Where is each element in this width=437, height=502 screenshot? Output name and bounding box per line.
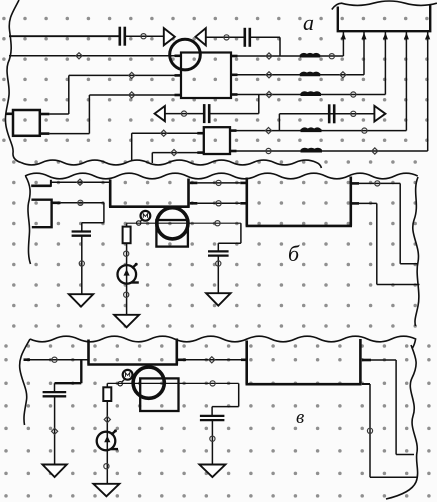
node diamond — [265, 128, 271, 134]
node — [124, 251, 129, 256]
wire w1 to edge — [352, 182, 359, 185]
wire row b-r2 — [190, 202, 198, 205]
node — [181, 111, 186, 116]
wire row b2a — [52, 202, 61, 205]
mounting box V — [140, 378, 178, 411]
transistor circle V — [133, 367, 164, 398]
transistor circle B — [157, 208, 188, 239]
node — [210, 381, 215, 386]
wire — [206, 36, 245, 38]
torn paper edge, section b top — [25, 173, 418, 179]
connector circle — [118, 382, 122, 386]
node — [375, 181, 380, 186]
node — [266, 148, 271, 153]
wire resistor bottom — [106, 401, 108, 484]
torn paper edge, section a bottom — [21, 160, 321, 168]
node diamond — [76, 53, 82, 59]
wire row2 left — [9, 55, 181, 57]
node — [224, 35, 229, 40]
ground — [114, 315, 139, 328]
wire to row4 — [209, 113, 259, 115]
capacitor C5 — [72, 230, 91, 232]
IC block B (central) — [109, 179, 190, 207]
node diamond — [266, 72, 272, 78]
node diamond — [129, 92, 135, 98]
node — [216, 201, 221, 206]
connector circle — [137, 221, 141, 225]
node — [210, 436, 215, 441]
wire w3 to edge — [362, 359, 371, 362]
probe link — [122, 380, 125, 382]
wire row4 right — [231, 94, 385, 96]
wire row2 right — [231, 55, 343, 57]
torn paper edge, section v right — [386, 345, 418, 499]
inductor L3 — [302, 92, 321, 94]
node diamond — [340, 72, 346, 78]
svg-text:б: б — [288, 241, 300, 266]
node diamond — [171, 150, 177, 156]
torn paper edge, section b right — [413, 177, 419, 326]
ground — [42, 465, 66, 478]
wire row v-r1 — [178, 358, 186, 361]
IC block B2 (right) — [246, 177, 352, 226]
IC block V2 (right) — [246, 339, 362, 384]
wire row6 right — [230, 150, 428, 152]
node — [362, 128, 367, 133]
torn paper edge, section a left — [5, 0, 21, 163]
wire row1 left — [9, 35, 119, 37]
wire w2 to edge — [352, 202, 359, 205]
inductor L1 — [301, 54, 319, 56]
wire resistor top — [106, 383, 108, 387]
IC block V (central) — [87, 339, 178, 365]
connector block B1 — [31, 200, 51, 228]
wire resistor bottom — [126, 243, 128, 315]
node — [124, 292, 129, 297]
wire — [81, 236, 83, 294]
amplifier right — [164, 28, 175, 45]
node — [351, 111, 356, 116]
wire cap branch right — [278, 114, 280, 131]
wire to capacitor — [103, 203, 105, 223]
capacitor C3 — [203, 104, 206, 123]
wire row b-r1 — [190, 182, 198, 185]
meter M1 — [141, 211, 151, 221]
ground — [69, 294, 93, 307]
wire row5 right — [230, 130, 406, 132]
wire — [165, 113, 204, 115]
wire row3 left — [69, 74, 181, 76]
wire row b3 (through hole) — [127, 222, 241, 224]
node diamond — [209, 357, 215, 363]
node diamond — [77, 179, 83, 185]
wire — [211, 420, 213, 464]
stub wire with tick — [31, 185, 51, 188]
node — [351, 92, 356, 97]
node — [79, 261, 84, 266]
wire row4 left — [89, 94, 181, 96]
wire to capacitor — [80, 360, 82, 384]
torn paper edge, section v top — [30, 336, 416, 348]
node — [216, 261, 221, 266]
capacitor C6 — [208, 250, 229, 252]
node — [52, 357, 57, 362]
pin stubs, block A — [175, 54, 182, 57]
node — [367, 428, 372, 433]
node — [104, 464, 109, 469]
node — [329, 54, 334, 59]
node — [141, 34, 146, 39]
wire row5 left corner — [132, 132, 204, 134]
node diamond — [104, 416, 110, 422]
svg-text:в: в — [296, 407, 304, 428]
ground — [199, 465, 225, 478]
wire row6 left corner — [152, 152, 204, 154]
generator symbol G1 — [118, 265, 137, 284]
node — [78, 200, 83, 205]
wire row v2 (through hole) — [107, 382, 238, 384]
connector block A3 top right — [337, 5, 432, 32]
torn paper edge, top-right fragment — [332, 1, 437, 10]
capacitor C4 — [328, 104, 331, 123]
wire — [125, 35, 164, 37]
capacitor C1 — [119, 27, 122, 46]
wire — [217, 256, 219, 294]
inductor L5 — [302, 149, 322, 151]
torn paper edge, section b left — [26, 176, 31, 264]
inductor L2 — [301, 73, 319, 75]
node diamond — [129, 72, 135, 78]
generator symbol G2 — [97, 432, 116, 451]
amplifier left (row T) — [155, 106, 165, 121]
IC block A2 — [204, 127, 230, 154]
resistor R2 — [103, 387, 111, 401]
IC block A — [181, 53, 231, 99]
wire — [54, 397, 56, 465]
amplifier right — [374, 106, 385, 122]
stub wire — [7, 113, 14, 116]
resistor R1 — [123, 227, 131, 244]
wire row v1 — [24, 358, 31, 361]
connector block A1 — [13, 110, 40, 136]
inductor L4 — [302, 129, 321, 131]
wire row3 right — [231, 74, 364, 76]
node diamond — [52, 428, 58, 434]
mounting box B — [156, 220, 188, 247]
wire w4 to edge — [362, 383, 370, 385]
node diamond — [372, 148, 378, 154]
transistor circle A — [170, 39, 201, 70]
capacitor C2 — [244, 28, 247, 47]
wire to capacitor C8 — [238, 383, 240, 406]
wire row b1 — [51, 181, 110, 183]
meter M2 — [123, 370, 133, 380]
probe link — [140, 219, 142, 221]
node diamond — [161, 130, 167, 136]
ground — [206, 293, 231, 306]
ground — [93, 484, 119, 497]
node — [215, 221, 220, 226]
capacitor C8 — [200, 415, 225, 417]
pin arrows, block A3 — [341, 32, 346, 39]
wire to capacitor C6 — [240, 223, 242, 243]
capacitor C7 — [43, 391, 67, 393]
amplifier left — [196, 28, 206, 45]
torn paper edge, section v left — [20, 339, 30, 425]
wire to row2 — [250, 36, 280, 38]
wire resistor top — [126, 223, 128, 226]
svg-text:а: а — [303, 10, 314, 35]
node diamond — [266, 53, 272, 59]
node — [216, 180, 221, 185]
pin stubs, block A2 — [197, 132, 204, 135]
node diamond — [266, 91, 272, 97]
